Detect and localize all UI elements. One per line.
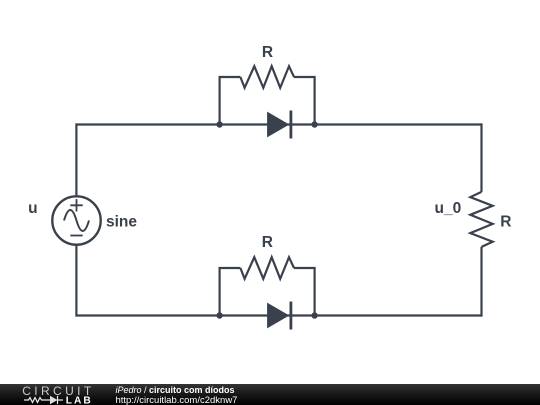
diode D2 cathode bar: [290, 302, 293, 330]
diode D2 bottom triangle: [267, 303, 289, 329]
resistor R2 bottom zigzag: [240, 257, 294, 279]
voltage source minus sign: [70, 235, 82, 237]
footer credit line: [116, 385, 238, 405]
voltage source sine wave: [64, 210, 89, 231]
wire left vertical lower: [75, 245, 77, 317]
logo diode triangle: [50, 395, 58, 403]
wire right vertical lower: [480, 247, 482, 317]
wire bottom horizontal: [76, 314, 481, 316]
junction top-right: [311, 121, 317, 127]
junction top-left: [216, 121, 222, 127]
wire left vertical upper: [75, 123, 77, 196]
wire right vertical upper: [480, 123, 482, 191]
voltage source V1 circle: [52, 196, 100, 244]
wire riser bottom-left branch: [220, 268, 241, 316]
diode D1 top triangle: [267, 112, 289, 138]
svg-text:R: R: [262, 234, 273, 251]
voltage source plus sign: [70, 199, 82, 211]
svg-text:sine: sine: [106, 214, 137, 231]
resistor R1 top zigzag: [240, 66, 294, 88]
diode D1 cathode bar: [290, 111, 293, 139]
wire riser top-left branch: [220, 77, 241, 125]
svg-text:LAB: LAB: [66, 395, 93, 404]
logo resistor-diode glyph: [24, 395, 63, 403]
svg-text:u: u: [28, 200, 37, 217]
resistor R3 right vertical zigzag: [470, 192, 492, 247]
wire riser bottom-right branch: [294, 268, 315, 316]
wire top horizontal: [76, 123, 481, 125]
svg-text:u_0: u_0: [435, 200, 462, 217]
svg-text:R: R: [500, 214, 511, 231]
CircuitLab logo: [0, 384, 100, 405]
svg-text:R: R: [262, 44, 273, 61]
junction bottom-right: [311, 312, 317, 318]
junction bottom-left: [216, 312, 222, 318]
wire riser top-right branch: [294, 77, 315, 125]
footer bar: [0, 384, 540, 405]
